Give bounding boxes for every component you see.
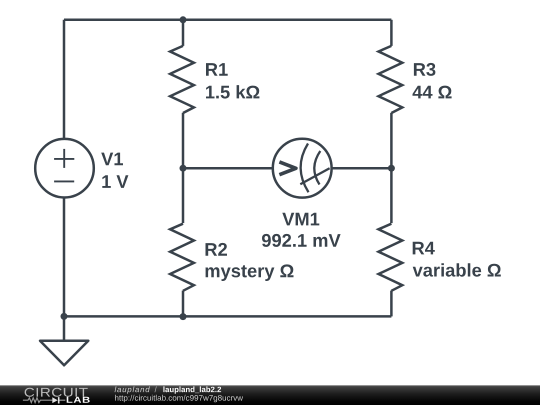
label R1 [206,63,228,76]
label R3 [414,63,436,76]
wire middle right [332,167,392,170]
junction dot bottom mid [180,313,187,320]
V1 plus sign [54,149,74,182]
wire left rail lower [63,198,66,316]
resistor R1 [170,46,194,113]
footer url line [115,395,243,403]
wire R1 bottom lead [182,113,185,168]
wire R4 top lead [390,168,393,223]
wire R2 bottom lead [182,291,185,317]
wire R4 bottom lead [390,291,393,317]
voltage source V1 circle [35,139,94,198]
label V1 [101,153,123,166]
value variable Ohm [413,263,501,277]
value 1.5 kOhm [206,85,259,99]
value mystery Ohm [206,264,294,281]
resistor R3 [379,46,403,113]
wire R3 bottom lead [390,113,393,168]
resistor R4 [379,224,403,291]
wire R3 top lead [390,20,393,46]
value 992.1 mV [262,234,341,247]
footer credit line [115,386,150,393]
value 44 Ohm [413,86,452,99]
wire R1 top lead [182,20,185,46]
wire R2 top lead [182,168,185,223]
CircuitLab logo schematic squiggle [23,398,65,403]
CircuitLab logo LAB [67,397,90,403]
value 1 V [102,175,128,188]
resistor R2 [170,224,194,291]
CircuitLab logo diode cathode bar [58,397,60,403]
label R4 [413,242,435,255]
voltmeter VM1 circle [273,139,332,198]
ground triangle [40,341,88,366]
junction dot bottom left [61,313,68,320]
wire left rail upper [63,20,66,138]
label VM1 [282,213,319,226]
ground stem [63,316,66,340]
CircuitLab logo wordmark CIRCUIT [25,388,88,397]
wire bottom rail [64,315,391,318]
wire middle left [183,167,272,170]
V1 minus sign [54,180,74,182]
wire top rail [64,19,391,22]
junction dot middle left [180,165,187,172]
voltmeter VM1 glyph [279,144,329,193]
junction dot top [180,16,187,23]
label R2 [206,243,228,256]
junction dot middle right [388,165,395,172]
CircuitLab logo diode [52,397,57,403]
